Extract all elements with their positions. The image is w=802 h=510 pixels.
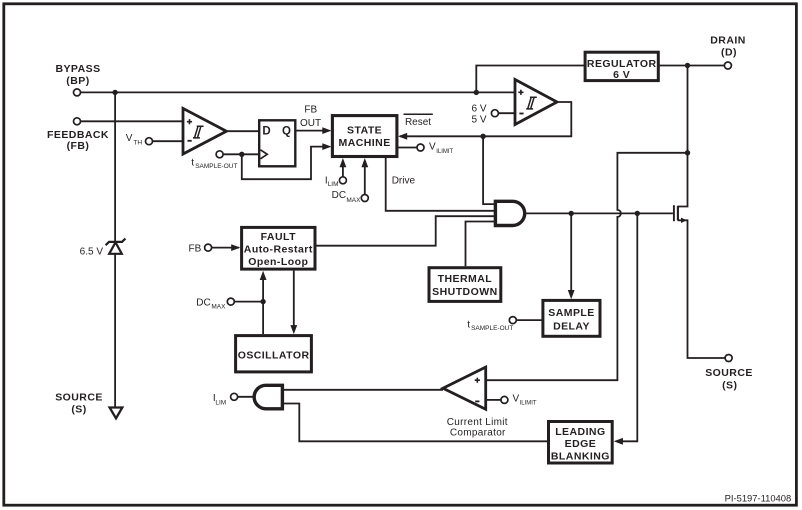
wire junction up into fault block and down to oscillator bbox=[262, 280, 264, 335]
wire fault block output to AND gate input 3 bbox=[317, 216, 496, 246]
transistor Q1 MOSFET bbox=[674, 205, 678, 221]
terminal ILIM bottom bbox=[231, 393, 238, 400]
comparator U5 current limit bbox=[443, 367, 486, 409]
svg-text:V: V bbox=[429, 142, 436, 153]
wire branch down to sample delay bbox=[570, 213, 572, 291]
arrow DCMAX up into state machine bbox=[361, 158, 368, 167]
svg-text:t: t bbox=[191, 157, 194, 168]
svg-text:5 V: 5 V bbox=[471, 114, 486, 125]
svg-text:STATE: STATE bbox=[347, 124, 382, 136]
flip-flop U2 bbox=[259, 120, 295, 166]
oscillator block bbox=[236, 336, 312, 372]
svg-text:SAMPLE-OUT: SAMPLE-OUT bbox=[195, 163, 237, 170]
wire regulator to DRAIN terminal bbox=[658, 65, 724, 67]
svg-text:6 V: 6 V bbox=[613, 69, 630, 81]
terminal tSAMPLE-OUT top bbox=[216, 151, 223, 158]
wire ILIM arrow into state machine bbox=[342, 165, 344, 177]
svg-text:ILIMIT: ILIMIT bbox=[520, 401, 537, 407]
svg-text:SOURCE: SOURCE bbox=[705, 367, 753, 379]
wire lower AND gate wrap to leading edge blanking bbox=[282, 404, 547, 442]
arrow ILIM up into state machine bbox=[340, 158, 347, 167]
svg-text:DRAIN: DRAIN bbox=[710, 35, 746, 47]
svg-text:FB: FB bbox=[304, 105, 317, 116]
terminal DCMAX top bbox=[361, 195, 368, 202]
terminal ILIM top bbox=[339, 177, 346, 184]
svg-text:SAMPLE-OUT: SAMPLE-OUT bbox=[471, 325, 513, 332]
node drain terminal junction bbox=[685, 63, 690, 68]
svg-text:6 V: 6 V bbox=[471, 103, 486, 114]
wire comparator U1 output to D input bbox=[226, 130, 259, 132]
wire fault block down to oscillator bbox=[293, 271, 295, 326]
svg-text:TH: TH bbox=[133, 140, 142, 147]
source arrow of MOSFET bbox=[681, 218, 687, 223]
arrow down into oscillator top bbox=[290, 325, 297, 334]
svg-text:V: V bbox=[126, 133, 133, 144]
svg-text:LIM: LIM bbox=[215, 399, 226, 406]
arrow Reset into state machine bbox=[398, 133, 407, 140]
svg-text:PI-5197-110408: PI-5197-110408 bbox=[725, 492, 792, 503]
wire ILIM bottom terminal to lower AND gate bbox=[238, 396, 255, 398]
node BYPASS-regulator junction bbox=[474, 90, 479, 95]
svg-text:SAMPLE: SAMPLE bbox=[548, 307, 594, 319]
svg-text:FAULT: FAULT bbox=[261, 231, 296, 243]
diode zener 6.5V bbox=[106, 239, 126, 254]
terminal SOURCE right bbox=[725, 355, 732, 362]
svg-text:(S): (S) bbox=[71, 404, 86, 416]
wire clock wrap to state machine second input bbox=[242, 147, 324, 180]
wire VILIMIT from state machine bbox=[398, 147, 417, 149]
wire branch up to regulator bbox=[476, 66, 585, 93]
svg-text:ILIMIT: ILIMIT bbox=[436, 149, 453, 155]
wire drain branch to current limit comparator + input with hop bbox=[486, 153, 688, 380]
terminal 6V 5V bbox=[491, 110, 498, 117]
AND gate lower ILIM mirrored bbox=[254, 385, 282, 409]
svg-text:t: t bbox=[467, 319, 470, 330]
comparator U1 feedback bbox=[183, 108, 226, 154]
wire MOSFET drain stub bbox=[678, 153, 688, 207]
arrow down into sample delay top bbox=[568, 290, 575, 299]
svg-text:MAX: MAX bbox=[211, 304, 226, 311]
svg-text:Auto-Restart: Auto-Restart bbox=[244, 244, 313, 256]
thermal shutdown block bbox=[429, 268, 501, 302]
svg-text:EDGE: EDGE bbox=[565, 438, 597, 450]
wire 6V 5V reference to comparator - input bbox=[498, 112, 515, 114]
wire VTH to comparator U1 - input bbox=[153, 140, 184, 142]
svg-text:D: D bbox=[262, 125, 270, 137]
svg-text:SOURCE: SOURCE bbox=[55, 391, 103, 403]
terminal VTH bbox=[146, 138, 153, 145]
AND gate upper drive bbox=[495, 201, 524, 225]
wire reset node down to AND gate input 1 bbox=[483, 136, 495, 204]
svg-text:Q: Q bbox=[282, 125, 291, 137]
channel bar bbox=[677, 206, 679, 221]
terminal FB fault bbox=[205, 244, 212, 251]
svg-text:FB: FB bbox=[189, 243, 202, 254]
wire zener vertical from BYPASS down to source arrow bbox=[114, 92, 116, 407]
svg-text:Reset: Reset bbox=[405, 117, 431, 128]
sample delay block bbox=[543, 300, 600, 336]
svg-text:6.5 V: 6.5 V bbox=[80, 247, 104, 258]
comparator U4 bypass 6V/5V bbox=[515, 80, 557, 125]
leading edge blanking block bbox=[549, 422, 613, 464]
wire MOSFET source stub to SOURCE terminal bbox=[678, 220, 725, 358]
svg-text:Open-Loop: Open-Loop bbox=[248, 256, 308, 268]
svg-text:DC: DC bbox=[332, 190, 346, 201]
terminal tSAMPLE-OUT bottom bbox=[509, 317, 516, 324]
wire AND gate output to MOSFET gate bbox=[525, 212, 673, 214]
svg-text:DC: DC bbox=[196, 297, 210, 308]
svg-text:Comparator: Comparator bbox=[450, 428, 506, 439]
ground source arrow bbox=[110, 408, 123, 419]
node BYPASS-zener junction bbox=[112, 90, 117, 95]
svg-text:OSCILLATOR: OSCILLATOR bbox=[238, 349, 310, 361]
arrow up into fault block bottom bbox=[260, 271, 267, 280]
node clock junction bbox=[239, 152, 244, 157]
node DCMAX oscillator junction bbox=[260, 299, 265, 304]
svg-text:(FB): (FB) bbox=[67, 140, 90, 152]
pin clock wedge bbox=[260, 150, 267, 159]
arrow FB into fault block bbox=[231, 244, 240, 251]
svg-text:(D): (D) bbox=[721, 46, 737, 58]
svg-text:LEADING: LEADING bbox=[555, 426, 605, 438]
terminal VILIMIT state machine bbox=[417, 144, 424, 151]
svg-text:Drive: Drive bbox=[392, 176, 416, 187]
svg-text:MAX: MAX bbox=[346, 197, 361, 204]
svg-text:BLANKING: BLANKING bbox=[551, 451, 610, 463]
svg-text:SHUTDOWN: SHUTDOWN bbox=[432, 286, 497, 298]
svg-text:Current Limit: Current Limit bbox=[447, 417, 508, 428]
wire DCMAX bottom to junction bbox=[234, 301, 263, 303]
wire 6V comparator output loop to Reset input bbox=[400, 102, 571, 136]
terminal FEEDBACK bbox=[74, 118, 81, 125]
svg-text:(BP): (BP) bbox=[66, 75, 89, 87]
terminal BYPASS bbox=[74, 89, 81, 96]
node gate line sample delay junction bbox=[569, 211, 574, 216]
wire Drive from state machine to AND gate input 2 bbox=[386, 158, 496, 211]
svg-text:MACHINE: MACHINE bbox=[339, 137, 391, 149]
svg-text:V: V bbox=[513, 393, 520, 404]
svg-text:BYPASS: BYPASS bbox=[55, 63, 100, 75]
gate bar bbox=[673, 205, 675, 221]
arrow FB OUT into state machine bbox=[322, 127, 331, 134]
wire DCMAX arrow into state machine bbox=[364, 165, 366, 195]
node drain branch junction bbox=[685, 150, 690, 155]
wire current limit comparator - input bbox=[486, 399, 501, 401]
wire BYPASS horizontal to 6V comparator + input bbox=[81, 91, 516, 93]
wire Q to state machine FB OUT bbox=[297, 130, 325, 132]
arrow left into leading edge blanking bbox=[614, 438, 623, 445]
svg-text:DELAY: DELAY bbox=[553, 320, 590, 332]
wire FB into fault block bbox=[212, 247, 240, 249]
regulator block U3 bbox=[585, 52, 658, 81]
wire thermal shutdown to AND gate input 4 bbox=[466, 222, 496, 267]
svg-text:(S): (S) bbox=[722, 379, 737, 391]
node gate line blanking junction bbox=[635, 211, 640, 216]
terminal DCMAX bottom bbox=[227, 298, 234, 305]
state machine block bbox=[332, 116, 397, 157]
wire lower AND gate to current limit comparator apex bbox=[282, 389, 443, 391]
wire branch down and left to leading edge blanking bbox=[623, 213, 638, 441]
arrow lower input into state machine bbox=[322, 143, 331, 150]
node reset line junction bbox=[480, 134, 485, 139]
terminal DRAIN bbox=[724, 62, 731, 69]
svg-text:THERMAL: THERMAL bbox=[438, 273, 493, 285]
svg-text:OUT: OUT bbox=[300, 118, 321, 129]
terminal VILIMIT comparator bbox=[501, 396, 508, 403]
fault auto-restart block bbox=[242, 227, 315, 269]
wire FEEDBACK to comparator U1 + input bbox=[81, 120, 184, 122]
wire drain vertical to MOSFET drain bbox=[687, 66, 689, 153]
wire tSAMPLE-OUT bottom to sample delay bbox=[516, 319, 543, 321]
wire tSAMPLE-OUT to clock bbox=[223, 153, 259, 155]
svg-text:LIM: LIM bbox=[328, 181, 339, 188]
